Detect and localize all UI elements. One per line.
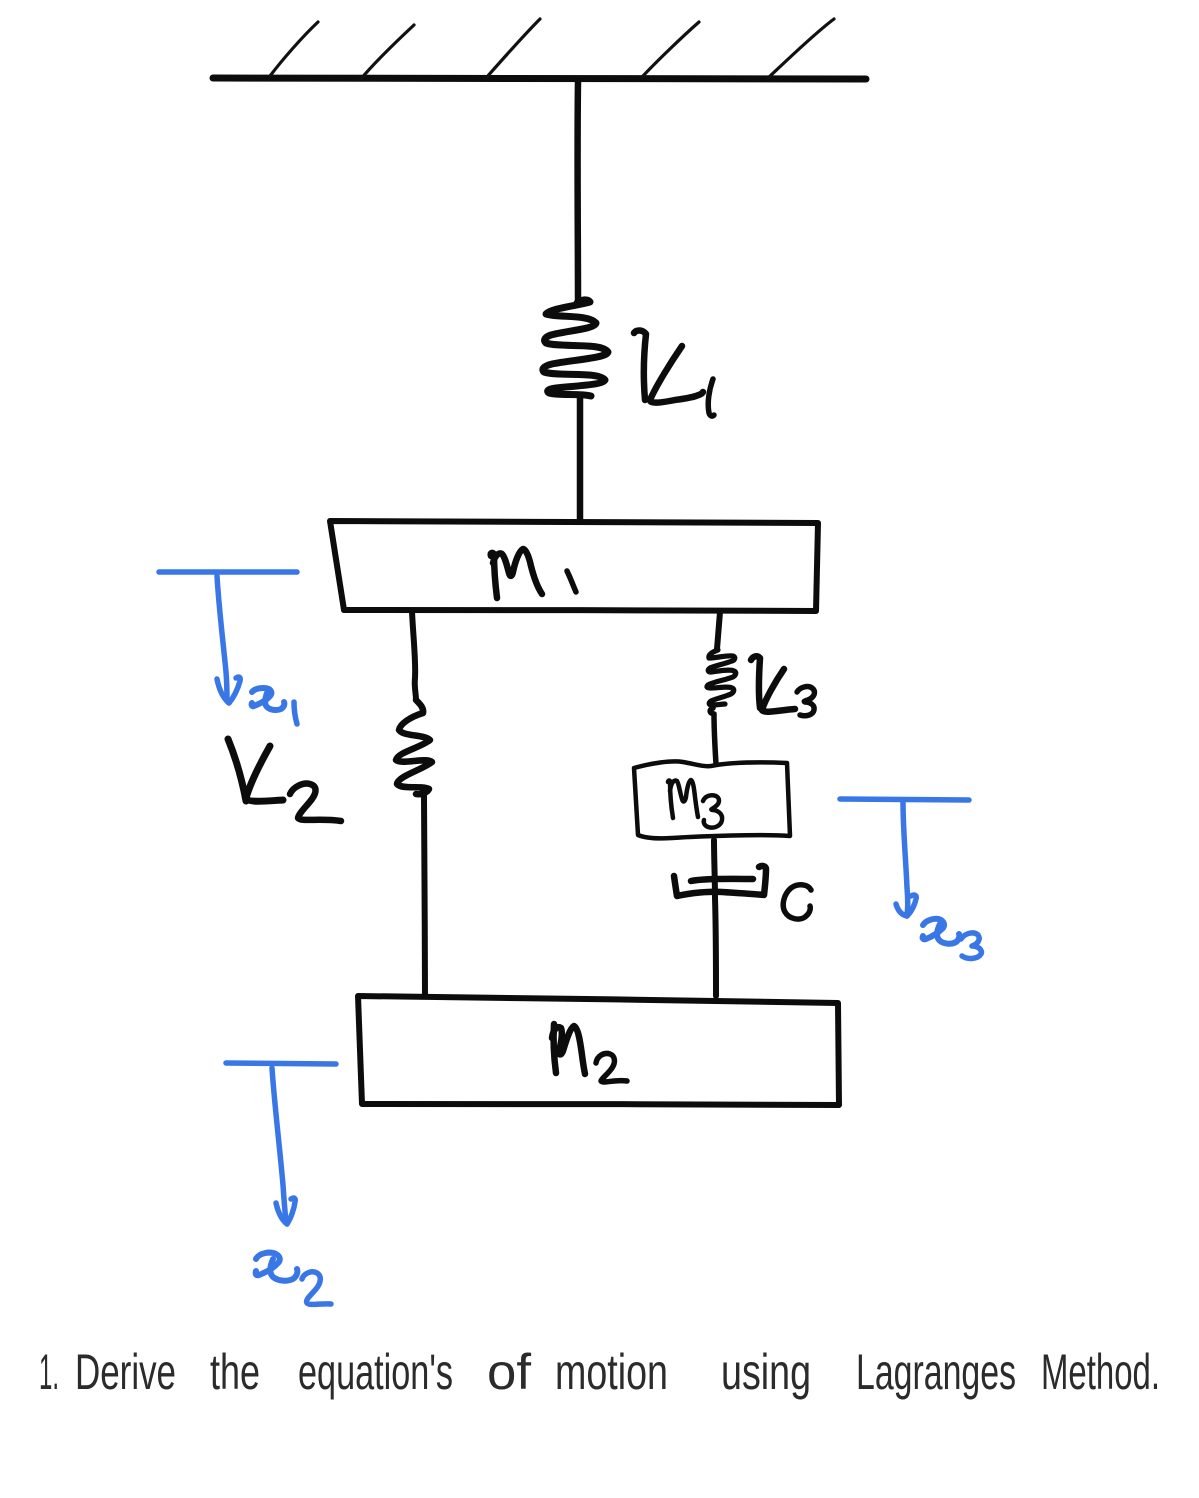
svg-text:Lagranges: Lagranges [856, 1344, 1016, 1400]
mass M2 box [358, 996, 839, 1105]
fixed ceiling line [213, 78, 866, 79]
svg-text:of: of [487, 1344, 531, 1400]
spring K1 [543, 300, 608, 396]
svg-text:Derive: Derive [75, 1344, 176, 1400]
wire mass M3 through damper to mass M2 [714, 840, 716, 996]
svg-text:1.: 1. [39, 1344, 59, 1400]
damper C piston plate [691, 879, 753, 881]
label c [783, 885, 811, 919]
svg-text:the: the [210, 1344, 260, 1400]
wire spring K1 to mass M1 [577, 397, 584, 519]
svg-text:Method.: Method. [1041, 1344, 1160, 1400]
svg-text:motion: motion [555, 1344, 668, 1400]
question text [39, 1344, 1160, 1400]
spring K2 [396, 700, 432, 794]
wire mass M1 to spring K2 [412, 611, 416, 700]
svg-text:equation's: equation's [298, 1344, 453, 1400]
wire spring K3 to mass M3 [710, 708, 716, 764]
label K3 [751, 656, 814, 716]
mass M1 box [330, 521, 818, 611]
ceiling hatch marks [270, 19, 834, 80]
label M3 [668, 780, 722, 828]
displacement arrow x2 (blue) [226, 1063, 336, 1224]
displacement arrow x1 (blue) [159, 572, 297, 703]
wire ceiling to spring K1 [574, 82, 581, 301]
wire mass M1 to spring K3 [717, 612, 720, 649]
svg-text:using: using [721, 1344, 811, 1400]
wire spring K2 to mass M2 [424, 796, 425, 996]
spring K3 [707, 650, 736, 705]
label M2 [552, 1024, 627, 1082]
label x1 (blue) [252, 688, 297, 724]
mass M3 box [634, 761, 790, 838]
damper C cylinder cup [674, 866, 766, 896]
label K2 [228, 739, 341, 821]
label M1 [491, 549, 576, 598]
displacement arrow x3 (blue) [840, 799, 969, 916]
label x2 (blue) [256, 1253, 331, 1305]
label K1 [634, 330, 714, 416]
label x3 (blue) [923, 919, 982, 959]
